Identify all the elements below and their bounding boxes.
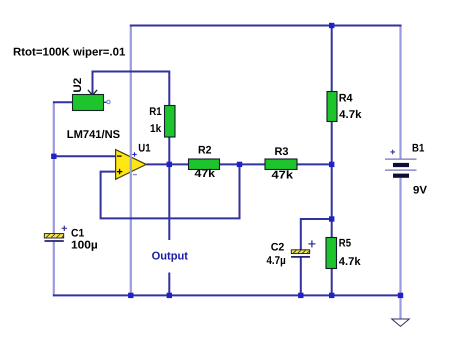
- node inverting input: [51, 154, 56, 159]
- svg-text:R2: R2: [198, 144, 212, 156]
- wire: left rail below C1 (lavender): [53, 242, 55, 297]
- svg-text:U1: U1: [138, 143, 150, 155]
- svg-text:47k: 47k: [272, 169, 294, 181]
- node bottom rail x C2: [298, 293, 303, 298]
- wire: U2 wiper net to R1: [93, 72, 170, 106]
- battery B1: [385, 150, 417, 178]
- U2 right pin stub and open terminal circle: [104, 101, 107, 103]
- resistor R1: [165, 106, 176, 138]
- wire: inverting input row: [53, 155, 116, 157]
- svg-text:R1: R1: [149, 106, 161, 118]
- node R2-R3 feedback: [237, 162, 242, 167]
- svg-text:Output: Output: [152, 250, 189, 262]
- wire: C2 bottom to bottom rail: [300, 257, 302, 296]
- node bottom rail x battery rail: [398, 293, 403, 298]
- svg-text:C1: C1: [71, 228, 84, 240]
- wiper arrowhead: [88, 90, 97, 95]
- junction nodes: [51, 23, 403, 298]
- wire: op-amp power rail vertical (lavender, top rail to bottom rail through U1): [130, 26, 132, 296]
- svg-text:4.7k: 4.7k: [339, 109, 362, 121]
- svg-text:4.7µ: 4.7µ: [267, 255, 286, 267]
- svg-text:47k: 47k: [195, 168, 216, 180]
- wire: output vertical lower part: [168, 273, 170, 296]
- node bottom rail x output: [167, 293, 172, 298]
- svg-text:9V: 9V: [413, 185, 428, 197]
- wire: U2 left pin horizontal: [53, 101, 73, 103]
- potentiometer U2 body: [73, 95, 104, 111]
- node bottom rail x power wire: [128, 293, 133, 298]
- svg-text:R3: R3: [275, 146, 289, 158]
- svg-text:1k: 1k: [150, 123, 162, 135]
- resistor R5: [326, 238, 337, 269]
- wire: R4 rail top: [331, 25, 333, 92]
- wire: non-inverting input + feedback loop: [101, 164, 240, 218]
- wire: R3 to R4 rail: [297, 163, 332, 165]
- svg-text:U2: U2: [72, 78, 84, 93]
- wire: top rail horizontal: [130, 25, 402, 27]
- wire: R1 bottom to output junction: [168, 137, 170, 164]
- svg-text:Rtot=100K wiper=.01: Rtot=100K wiper=.01: [13, 46, 125, 58]
- svg-text:R5: R5: [339, 238, 351, 250]
- op-amp input marks: [117, 155, 122, 157]
- wire: battery rail top (lavender): [399, 25, 401, 159]
- resistor R2: [189, 159, 220, 170]
- resistor R4: [327, 92, 337, 122]
- svg-text:R4: R4: [339, 93, 354, 105]
- wire: bottom rail horizontal: [53, 294, 402, 296]
- op-amp U1: [116, 150, 147, 180]
- wire: left rail from U2 left pin down to bottom-left corner (lavender): [53, 102, 55, 234]
- node R3 x rail: [329, 162, 334, 167]
- wire: battery rail bottom + to ground (lavender): [399, 178, 401, 319]
- node op-amp output: [167, 162, 172, 167]
- node C2 x rail: [329, 216, 334, 221]
- svg-text:100µ: 100µ: [71, 239, 98, 251]
- svg-text:C2: C2: [271, 241, 285, 253]
- op-amp power pin marks: [132, 152, 136, 156]
- capacitor C2 (electrolytic, hatched plate): [291, 240, 315, 257]
- ground: [392, 319, 410, 326]
- wire: output vertical upper part: [168, 164, 170, 240]
- wire: C2 horizontal to rail: [301, 219, 332, 250]
- wire: output row op-amp to R2: [146, 163, 188, 165]
- node bottom rail x R5: [329, 293, 334, 298]
- resistor R3: [265, 159, 297, 170]
- node top rail x R4 rail: [329, 23, 334, 28]
- svg-text:B1: B1: [412, 143, 424, 155]
- capacitor C1 (electrolytic, hatched plate): [44, 226, 67, 241]
- svg-text:4.7k: 4.7k: [339, 256, 361, 268]
- svg-text:LM741/NS: LM741/NS: [67, 129, 121, 141]
- wire: R2 to R3: [220, 163, 266, 165]
- wire: R5 bottom to bottom rail: [331, 269, 333, 297]
- wire: R4 rail middle (R4 bottom through R3 and C2 junctions to R5 top): [331, 122, 333, 238]
